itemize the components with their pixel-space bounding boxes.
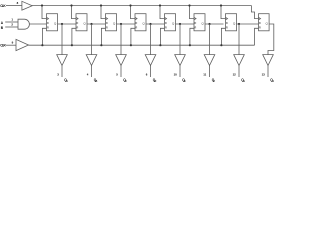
svg-text:QF: QF bbox=[212, 78, 216, 83]
junction clear rail / FF6 bbox=[189, 44, 191, 46]
wire output stem QC bbox=[120, 66, 122, 78]
wire FF5 Q output bbox=[176, 23, 195, 25]
wire output stem QG bbox=[238, 66, 240, 78]
wire FF7 Q output bbox=[237, 23, 259, 25]
wire output stem QE bbox=[179, 66, 181, 78]
wire clock drop to FF4 bbox=[131, 6, 136, 19]
wire Q3 tap down to output buffer bbox=[120, 24, 122, 55]
wire output stem QD bbox=[150, 66, 152, 78]
svg-text:QA: QA bbox=[64, 78, 68, 83]
wire FF8 clear pin to clear rail end bbox=[255, 28, 259, 45]
wire B to AND gate bbox=[5, 26, 18, 28]
wire FF4 clear pin to clear rail bbox=[131, 28, 135, 45]
svg-text:R: R bbox=[47, 27, 49, 30]
junction clear rail / FF2 bbox=[71, 44, 73, 46]
flip-flop FF3 bbox=[106, 14, 117, 31]
junction clock rail / FF4 bbox=[129, 4, 131, 6]
wire Q7 tap down to output buffer bbox=[238, 24, 240, 55]
junction clear rail / FF3 bbox=[100, 44, 102, 46]
wire clock rail bbox=[32, 5, 251, 7]
wire clock drop to FF3 bbox=[101, 6, 106, 19]
svg-text:D: D bbox=[77, 22, 79, 25]
output buffer triangle QE bbox=[175, 55, 186, 66]
flip-flop FF1 bbox=[47, 14, 58, 31]
wire CLK input to buffer U1 bbox=[6, 5, 22, 7]
wire AND output to FF1 data pin bbox=[29, 23, 46, 25]
FF3 clock wedge pin bbox=[106, 17, 108, 19]
output buffer triangle QC bbox=[116, 55, 127, 66]
wire Q4 tap down to output buffer bbox=[150, 24, 152, 55]
junction Q6 tap bbox=[208, 23, 210, 25]
junction clear rail / FF1 bbox=[41, 44, 43, 46]
svg-text:B: B bbox=[1, 26, 4, 30]
buffer U1 (clock buffer) bbox=[22, 1, 32, 10]
svg-text:9: 9 bbox=[12, 41, 14, 45]
output buffer triangle QA bbox=[57, 55, 68, 66]
svg-text:10: 10 bbox=[174, 72, 178, 76]
FF8 clock wedge pin bbox=[259, 17, 261, 19]
flip-flop FF7 bbox=[226, 14, 237, 31]
svg-text:5: 5 bbox=[116, 72, 118, 76]
wire clock drop to FF5 bbox=[160, 6, 165, 19]
junction clock rail / FF1 bbox=[41, 4, 43, 6]
svg-text:R: R bbox=[165, 27, 167, 30]
wire FF8 Q output down to output buffer bbox=[268, 24, 274, 55]
junction clear rail / FF7 bbox=[220, 44, 222, 46]
junction Q5 tap bbox=[179, 23, 181, 25]
svg-text:QD: QD bbox=[153, 78, 157, 83]
flip-flop FF5 bbox=[165, 14, 176, 31]
svg-text:D: D bbox=[136, 22, 138, 25]
junction clock rail / FF2 bbox=[70, 4, 72, 6]
FF7 clock wedge pin bbox=[226, 17, 228, 19]
svg-text:CLK: CLK bbox=[0, 4, 6, 8]
wire FF6 Q output bbox=[205, 23, 224, 25]
wire output stem QB bbox=[91, 66, 93, 78]
wire FF1 Q output bbox=[58, 23, 77, 25]
wire Q1 tap down to output buffer bbox=[61, 24, 63, 55]
FF4 clock wedge pin bbox=[135, 17, 137, 19]
svg-text:QC: QC bbox=[123, 78, 127, 83]
svg-text:11: 11 bbox=[203, 72, 206, 76]
wire FF2 Q output bbox=[87, 23, 106, 25]
flip-flop FF2 bbox=[76, 14, 87, 31]
junction Q2 tap bbox=[90, 23, 92, 25]
junction clock rail / FF7 bbox=[220, 4, 222, 6]
svg-text:D: D bbox=[47, 22, 49, 25]
wire clock drop to FF1 bbox=[42, 6, 47, 19]
flip-flop FF4 bbox=[135, 14, 146, 31]
junction Q1 tap bbox=[61, 23, 63, 25]
junction clock rail / FF3 bbox=[100, 4, 102, 6]
output buffer triangle QH bbox=[263, 55, 274, 66]
buffer U3 (clear buffer) bbox=[16, 39, 29, 50]
svg-text:D: D bbox=[106, 22, 108, 25]
FF5 clock wedge pin bbox=[165, 17, 167, 19]
wire output stem QF bbox=[209, 66, 211, 78]
wire FF2 clear pin to clear rail bbox=[72, 28, 76, 45]
junction clear rail / FF5 bbox=[159, 44, 161, 46]
svg-text:3: 3 bbox=[57, 72, 59, 76]
wire CLR input to buffer U3 bbox=[6, 44, 16, 46]
svg-text:QH: QH bbox=[270, 78, 274, 83]
wire Q2 tap down to output buffer bbox=[91, 24, 93, 55]
wire FF3 Q output bbox=[117, 23, 136, 25]
output buffer triangle QF bbox=[204, 55, 215, 66]
wire Q5 tap down to output buffer bbox=[179, 24, 181, 55]
svg-text:QE: QE bbox=[182, 78, 186, 83]
svg-text:R: R bbox=[106, 27, 108, 30]
wire FF1 clear pin to clear rail bbox=[42, 28, 46, 45]
flip-flop FF6 bbox=[194, 14, 205, 31]
svg-text:QB: QB bbox=[94, 78, 98, 83]
junction Q3 tap bbox=[120, 23, 122, 25]
FF6 clock wedge pin bbox=[194, 17, 196, 19]
wire clear rail bbox=[29, 44, 255, 46]
junction Q7 tap bbox=[238, 23, 240, 25]
svg-text:R: R bbox=[226, 27, 228, 30]
svg-text:D: D bbox=[165, 22, 167, 25]
junction clock rail / FF6 bbox=[188, 4, 190, 6]
svg-text:QG: QG bbox=[241, 78, 245, 83]
svg-text:R: R bbox=[259, 27, 261, 30]
svg-text:4: 4 bbox=[87, 72, 89, 76]
wire Q6 tap down to output buffer bbox=[209, 24, 211, 55]
FF1 clock wedge pin bbox=[47, 17, 49, 19]
wire A to AND gate bbox=[5, 21, 18, 23]
svg-text:D: D bbox=[226, 22, 228, 25]
svg-text:A: A bbox=[1, 21, 4, 25]
AND gate U2 bbox=[18, 19, 29, 29]
wire clock drop to FF6 bbox=[190, 6, 195, 19]
FF2 clock wedge pin bbox=[76, 17, 78, 19]
svg-text:12: 12 bbox=[233, 72, 237, 76]
svg-text:R: R bbox=[195, 27, 197, 30]
svg-text:D: D bbox=[259, 22, 261, 25]
wire output stem QA bbox=[61, 66, 63, 78]
wire clock drop to FF2 bbox=[72, 6, 77, 19]
svg-text:13: 13 bbox=[262, 72, 266, 76]
svg-text:R: R bbox=[77, 27, 79, 30]
wire clock drop to FF7 bbox=[221, 6, 226, 19]
junction clear rail / FF4 bbox=[130, 44, 132, 46]
svg-text:8: 8 bbox=[17, 1, 19, 5]
wire FF7 clear pin to clear rail bbox=[221, 28, 225, 45]
flip-flop FF8 bbox=[259, 14, 270, 31]
output buffer triangle QD bbox=[145, 55, 156, 66]
wire FF4 Q output bbox=[146, 23, 165, 25]
wire output stem QH bbox=[267, 66, 269, 78]
svg-text:1: 1 bbox=[11, 17, 13, 21]
output buffer triangle QB bbox=[86, 55, 97, 66]
svg-text:R: R bbox=[136, 27, 138, 30]
svg-text:2: 2 bbox=[11, 23, 13, 27]
svg-text:CLR: CLR bbox=[0, 44, 6, 48]
svg-text:D: D bbox=[195, 22, 197, 25]
wire clock rail end hook to FF8 bbox=[251, 6, 258, 19]
svg-text:6: 6 bbox=[146, 72, 148, 76]
junction Q4 tap bbox=[149, 23, 151, 25]
wire FF6 clear pin to clear rail bbox=[190, 28, 194, 45]
wire FF5 clear pin to clear rail bbox=[160, 28, 164, 45]
wire FF3 clear pin to clear rail bbox=[101, 28, 105, 45]
junction clock rail / FF5 bbox=[159, 4, 161, 6]
output buffer triangle QG bbox=[234, 55, 245, 66]
